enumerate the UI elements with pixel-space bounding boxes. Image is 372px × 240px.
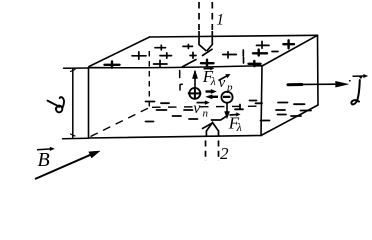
svg-text:n: n [203, 108, 209, 120]
svg-text:2: 2 [220, 144, 229, 163]
svg-text:v: v [193, 100, 201, 117]
svg-text:λ: λ [210, 74, 216, 88]
svg-text:1: 1 [216, 11, 224, 28]
svg-text:v: v [219, 75, 226, 91]
svg-text:B: B [38, 149, 50, 171]
svg-text:p: p [226, 82, 233, 94]
svg-text:λ: λ [236, 120, 242, 134]
